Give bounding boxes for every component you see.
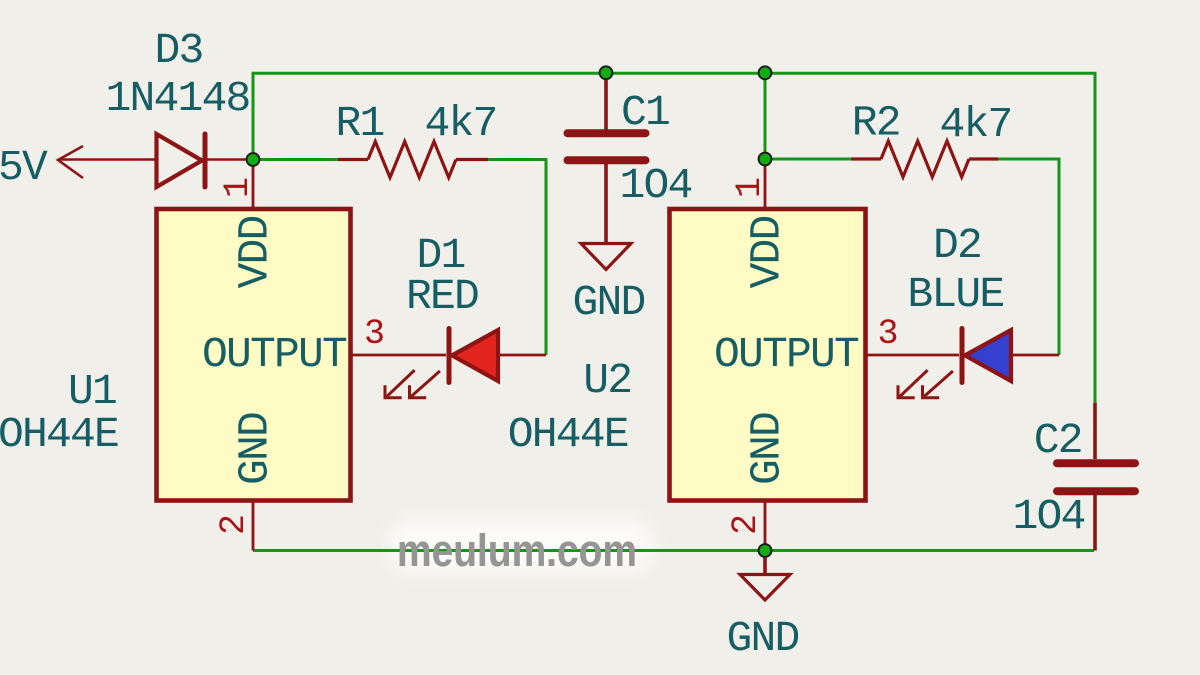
svg-text:RED: RED xyxy=(406,272,478,321)
svg-text:BLUE: BLUE xyxy=(907,270,1003,319)
svg-text:2: 2 xyxy=(214,516,254,535)
svg-text:GND: GND xyxy=(726,614,798,663)
svg-text:U2: U2 xyxy=(583,356,631,405)
svg-text:1: 1 xyxy=(218,178,258,198)
svg-text:1O4: 1O4 xyxy=(619,161,691,210)
svg-text:OUTPUT: OUTPUT xyxy=(714,330,859,379)
svg-text:1N4148: 1N4148 xyxy=(105,74,249,123)
svg-text:C2: C2 xyxy=(1034,416,1082,465)
svg-text:1: 1 xyxy=(730,178,770,198)
svg-text:R2: R2 xyxy=(852,99,900,148)
svg-text:D2: D2 xyxy=(933,221,981,270)
svg-text:OH44E: OH44E xyxy=(0,410,118,459)
svg-text:5V: 5V xyxy=(0,143,48,192)
svg-text:GND: GND xyxy=(743,413,792,485)
svg-text:2: 2 xyxy=(726,516,766,535)
svg-text:GND: GND xyxy=(231,413,280,485)
svg-text:3: 3 xyxy=(364,314,383,354)
svg-text:C1: C1 xyxy=(621,88,669,137)
svg-text:U1: U1 xyxy=(68,367,116,416)
svg-text:GND: GND xyxy=(572,278,644,327)
svg-text:D3: D3 xyxy=(154,26,202,75)
svg-text:4k7: 4k7 xyxy=(939,100,1011,149)
svg-text:OH44E: OH44E xyxy=(508,410,628,459)
svg-text:R1: R1 xyxy=(335,99,383,148)
svg-text:VDD: VDD xyxy=(743,216,792,288)
svg-text:3: 3 xyxy=(877,314,896,354)
svg-text:4k7: 4k7 xyxy=(424,99,496,148)
svg-text:1O4: 1O4 xyxy=(1012,492,1084,541)
svg-text:VDD: VDD xyxy=(231,216,280,288)
svg-text:meulum.com: meulum.com xyxy=(397,525,637,576)
svg-text:OUTPUT: OUTPUT xyxy=(202,330,347,379)
